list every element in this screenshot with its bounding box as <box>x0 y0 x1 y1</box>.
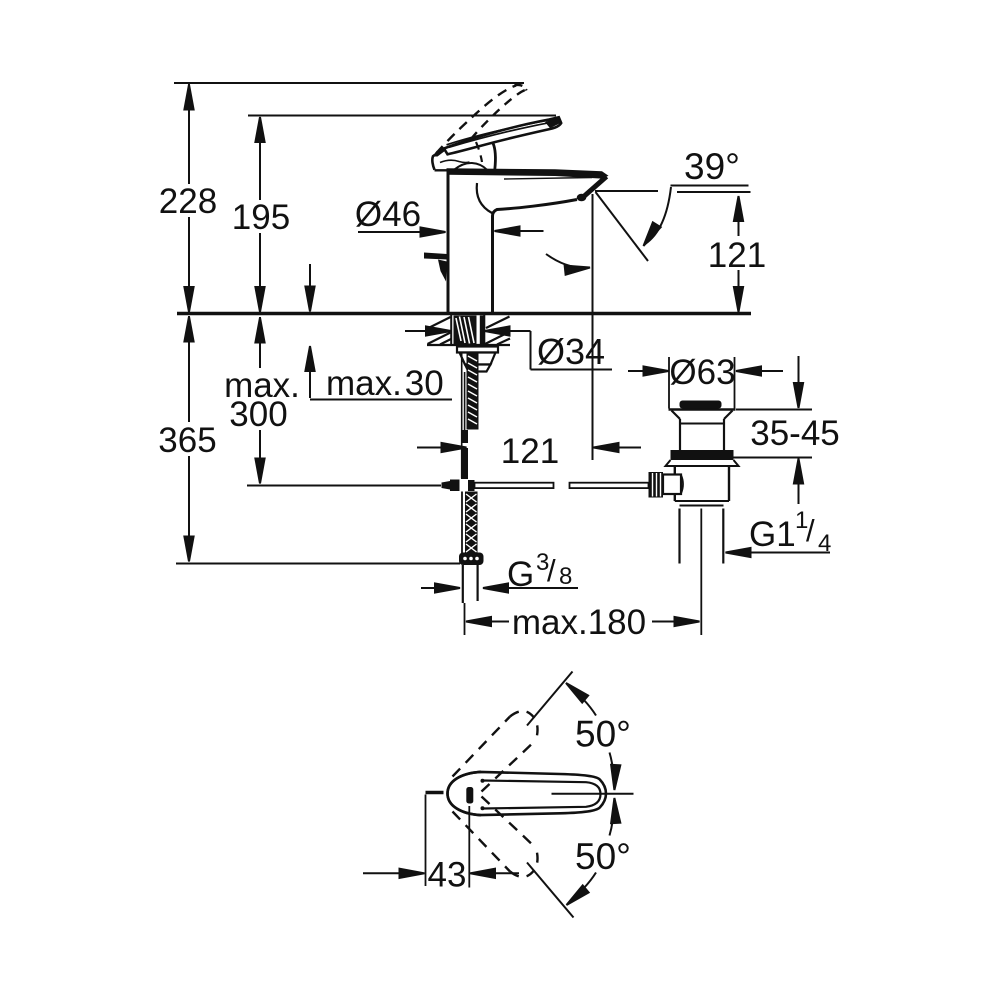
drain gasket <box>671 450 734 460</box>
handle lever inner streak lines <box>447 119 555 145</box>
handle base detail line <box>440 160 470 162</box>
threaded stud below nut <box>467 353 479 430</box>
counter hole left edge <box>450 315 452 345</box>
counter hatching left block <box>428 317 452 345</box>
svg-text:Ø63: Ø63 <box>669 353 735 392</box>
dashed handle down tip <box>510 848 538 877</box>
spout top inner line <box>504 178 592 180</box>
hose ball joint <box>459 553 484 566</box>
35-45 upper reference line <box>736 409 812 411</box>
spout aerator <box>577 194 587 202</box>
svg-text:Ø34: Ø34 <box>537 331 605 372</box>
raised handle (dashed) tip <box>515 85 527 91</box>
Ø34 leader shelf <box>531 369 613 371</box>
handle cap circle <box>448 772 482 815</box>
rod lower segment <box>461 430 468 443</box>
handle hook on body left edge <box>424 253 447 260</box>
drain flange sides <box>672 411 733 420</box>
35-45 lower reference line <box>734 457 813 459</box>
drain port fillet curve <box>681 475 683 494</box>
dimension max.300 vertical line <box>259 317 261 368</box>
handle lever (solid) <box>444 117 561 154</box>
dimension max.30 upper arrow <box>309 264 311 290</box>
svg-text:/: / <box>806 513 815 548</box>
svg-text:121: 121 <box>708 236 766 275</box>
drain extension line left <box>668 357 670 409</box>
drain centerline / max180 right extension <box>700 509 702 636</box>
dimension 43 arrows <box>363 872 400 874</box>
body inner fillet curve <box>477 183 492 213</box>
spout outlet reference line <box>595 190 658 192</box>
svg-text:8: 8 <box>559 563 572 590</box>
50 degree ray down <box>527 863 574 918</box>
flexible hose braided section <box>465 492 478 554</box>
svg-text:365: 365 <box>158 421 216 460</box>
cartridge dome arc under handle <box>454 163 487 170</box>
handle base bottom on body <box>435 169 495 171</box>
hose left rod line <box>461 492 463 554</box>
dashed handle rotated down <box>453 797 537 872</box>
dimension max.180 <box>466 617 491 626</box>
pop-up cross fitting <box>442 481 451 490</box>
Ø46 right arrow <box>519 230 544 232</box>
horizontal pop-up rod left segment <box>475 483 554 488</box>
raised handle (dashed) neck line <box>476 142 482 162</box>
svg-text:max.180: max.180 <box>512 603 646 642</box>
drain body <box>674 466 676 501</box>
dimension 121 middle left arrow <box>417 447 442 449</box>
drain neck <box>679 419 681 450</box>
threaded shank through counter <box>454 316 477 346</box>
handle neck front edge <box>493 143 495 169</box>
svg-text:/: / <box>547 553 556 588</box>
drain tailpipe <box>678 509 680 564</box>
dimension 43 right extension line <box>468 806 470 888</box>
drain plug cap <box>680 401 722 409</box>
G1 1/4 leader with arrow <box>748 552 830 554</box>
label G 3/8 <box>507 549 572 594</box>
reference line 195 <box>248 115 556 117</box>
svg-text:39°: 39° <box>684 146 740 187</box>
hose end reference line <box>176 563 460 565</box>
handle lever tip fill <box>545 118 561 129</box>
dimension G3/8 arrows <box>421 587 436 589</box>
svg-text:35-45: 35-45 <box>750 414 840 453</box>
water stream diagonal line <box>596 192 649 261</box>
pivot marker bar <box>466 787 473 804</box>
shank nut lower <box>465 365 491 372</box>
50 degree arc down <box>584 873 597 889</box>
dashed handle rotated up <box>453 717 537 792</box>
svg-text:195: 195 <box>232 198 290 237</box>
svg-text:G: G <box>507 555 534 594</box>
svg-text:228: 228 <box>159 182 217 221</box>
dimension 195 vertical line <box>259 117 261 200</box>
faucet body top band <box>447 168 609 178</box>
centerline left mark <box>426 791 444 794</box>
drain extension line right <box>734 357 736 409</box>
50 degree arc up <box>584 700 597 716</box>
handle top view outline <box>448 772 607 815</box>
Ø34 leader vertical <box>530 331 532 370</box>
dimension 228 vertical line <box>188 84 190 184</box>
raised handle (dashed) outer line <box>436 86 516 154</box>
pop-up rod <box>461 352 463 478</box>
dimension 365 vertical line <box>188 316 190 422</box>
top reference line 228 <box>174 82 524 84</box>
svg-text:max. 30: max. 30 <box>326 364 444 403</box>
drain gasket flare <box>666 460 739 466</box>
dimension max.30 lower arrow <box>309 368 311 398</box>
dimension 43 left extension line <box>425 795 427 887</box>
label G1 1/4 <box>749 507 831 557</box>
horizontal pop-up rod right segment <box>570 483 649 488</box>
deck / mounting surface line <box>177 312 751 315</box>
dimension 35-45 top arrow <box>798 356 800 384</box>
dimension 35-45 bottom arrow <box>798 483 800 504</box>
svg-text:43: 43 <box>428 856 467 895</box>
handle inner contour <box>483 781 601 809</box>
50 degree ray up <box>527 672 573 726</box>
max180 left extension line <box>464 603 466 635</box>
swivel arc with arrow <box>546 254 586 268</box>
dimension Ø34 arrows <box>405 330 428 332</box>
shank right rod <box>480 316 484 346</box>
handle base outline <box>432 149 444 170</box>
svg-text:G1: G1 <box>749 515 796 554</box>
svg-text:50°: 50° <box>575 714 631 755</box>
handle nose fill <box>433 147 446 157</box>
shank washer <box>457 347 498 353</box>
svg-text:121: 121 <box>501 432 559 471</box>
drain flange top line <box>669 408 736 410</box>
svg-text:Ø46: Ø46 <box>355 195 421 234</box>
spout height reference line <box>677 191 751 193</box>
spout outlet face <box>582 177 607 199</box>
39 degree shelf line <box>671 185 749 187</box>
39 degree arc with arrow <box>645 187 671 244</box>
max.30 shelf line <box>310 399 452 401</box>
shank nut upper <box>460 353 496 365</box>
spout projection vertical line <box>592 194 594 460</box>
svg-text:300: 300 <box>229 395 287 434</box>
svg-text:50°: 50° <box>575 836 631 877</box>
Ø46 left arrow <box>421 227 446 236</box>
drain side port knurled nut <box>649 472 664 498</box>
counter hole right edge <box>483 315 485 345</box>
dimension 121 middle right arrow <box>616 447 641 449</box>
raised handle (dashed) inner line <box>471 90 525 139</box>
dimension Ø63 <box>628 370 644 372</box>
G3/8 supply pipe <box>462 565 464 603</box>
max.300 reference line <box>247 485 441 487</box>
spout underside curve <box>493 200 578 313</box>
faucet body left edge <box>447 169 450 312</box>
counter cross-section second line <box>427 344 510 346</box>
handle contour end dots <box>481 779 485 783</box>
dashed handle up tip <box>510 711 538 740</box>
drain side port hex <box>663 475 681 495</box>
centerline right <box>552 793 634 795</box>
counter hatching right block <box>485 317 510 345</box>
dimension 121 right vertical line <box>738 196 740 236</box>
Ø46 leader underline <box>358 231 424 233</box>
